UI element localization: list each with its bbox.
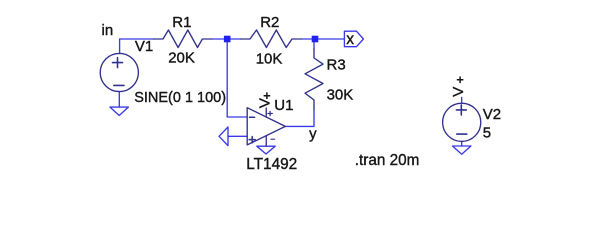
- wires, junctions, ground and port flags : bright blue: [110, 31, 471, 154]
- op-amp inverting input marker: [250, 116, 255, 118]
- op-amp V+ pin: [265, 108, 267, 117]
- wire: V1 bottom to ground: [118, 92, 120, 108]
- net flag V+ at V2 : plus: [457, 77, 464, 84]
- svg-text:V2: V2: [483, 106, 501, 123]
- wire: op-amp output to R3 bottom (node y): [285, 110, 314, 127]
- wire: node A to R2: [231, 38, 241, 40]
- svg-text:5: 5: [483, 124, 491, 141]
- junction node x: [312, 36, 319, 43]
- resistor R3 body: [305, 49, 323, 110]
- ground flag (rotated) at op-amp + input: [219, 127, 228, 146]
- svg-text:20K: 20K: [168, 50, 195, 67]
- wire: rotated ground to op-amp + input: [228, 135, 247, 137]
- port flag x outline: [344, 31, 363, 47]
- resistor R1 body: [154, 30, 212, 48]
- op-amp non-inverting input marker: [249, 137, 255, 143]
- ground flag under op-amp: [257, 146, 275, 154]
- svg-text:SINE(0 1 100): SINE(0 1 100): [134, 90, 226, 106]
- svg-text:R1: R1: [172, 14, 191, 31]
- ground flag under V1: [110, 107, 128, 115]
- op-amp U1 triangle: [247, 108, 285, 145]
- voltage source V2 circle: [443, 103, 481, 141]
- op-amp V- pin marker: [271, 138, 275, 140]
- V2 minus marker: [457, 133, 467, 135]
- wire: R3 top to node x: [313, 42, 315, 48]
- wire: V1 top to R1 left lead (node in): [120, 39, 154, 54]
- V1 plus marker: [113, 58, 123, 68]
- net flag V+ at op-amp : plus: [264, 92, 271, 99]
- svg-text:V1: V1: [135, 38, 153, 55]
- V1 minus marker: [114, 84, 124, 86]
- op-amp V+ pin marker: [268, 111, 272, 115]
- svg-text:30K: 30K: [327, 87, 354, 104]
- wire: R2 to node x: [302, 38, 312, 40]
- svg-text:V: V: [256, 97, 273, 108]
- wire: V2 bottom to ground: [461, 141, 463, 146]
- wire: node x to port flag x: [318, 38, 344, 40]
- wire: node A down to op-amp inverting input: [227, 42, 247, 117]
- svg-text:R3: R3: [327, 56, 346, 73]
- svg-text:x: x: [346, 31, 354, 48]
- svg-text:V: V: [450, 86, 467, 97]
- resistor R2 body: [241, 30, 302, 48]
- svg-text:R2: R2: [260, 14, 279, 31]
- svg-text:y: y: [309, 126, 317, 143]
- component bodies : navy: [100, 30, 481, 146]
- op-amp V- pin: [265, 136, 267, 147]
- ground flag under V2: [453, 146, 471, 154]
- junction node A: [224, 36, 231, 43]
- V2 plus marker: [456, 105, 466, 115]
- svg-text:.tran 20m: .tran 20m: [355, 152, 420, 169]
- voltage source V1 circle: [100, 53, 138, 91]
- svg-text:LT1492: LT1492: [246, 156, 297, 173]
- svg-text:10K: 10K: [256, 50, 283, 67]
- wire: V2 top pin to V+ net flag: [461, 97, 463, 103]
- svg-text:U1: U1: [274, 97, 293, 114]
- wire: R1 to node A: [212, 38, 224, 40]
- svg-text:in: in: [102, 22, 114, 39]
